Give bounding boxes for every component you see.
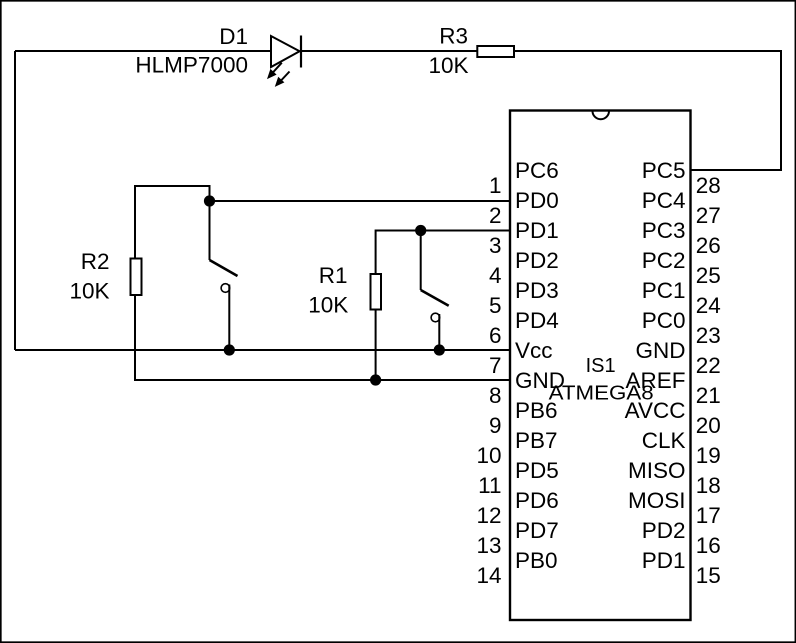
- svg-text:PC5: PC5: [642, 158, 686, 183]
- svg-text:10K: 10K: [69, 279, 109, 304]
- svg-text:20: 20: [696, 413, 721, 438]
- svg-text:21: 21: [696, 383, 721, 408]
- resistor R3: [477, 46, 514, 57]
- resistor R2: [131, 259, 142, 296]
- pin numbers 28-15: [696, 173, 721, 588]
- IC U1 ATMEGA8 body: [510, 111, 691, 621]
- IC U1 left pin labels: [515, 158, 565, 573]
- svg-text:5: 5: [489, 293, 502, 318]
- node PD1 junction: [415, 225, 426, 236]
- svg-text:14: 14: [476, 563, 501, 588]
- node S1 to Vcc junction: [224, 344, 235, 355]
- svg-text:R1: R1: [319, 263, 348, 288]
- svg-text:PD0: PD0: [515, 188, 559, 213]
- label R1: [319, 263, 348, 288]
- svg-text:PD2: PD2: [642, 518, 686, 543]
- svg-text:PD3: PD3: [515, 278, 559, 303]
- svg-text:PD2: PD2: [515, 248, 559, 273]
- wire LED cathode to R3: [302, 50, 477, 52]
- wire R2 top to switch S1 top: [135, 186, 210, 258]
- svg-text:PD6: PD6: [515, 488, 559, 513]
- svg-text:PD1: PD1: [515, 218, 559, 243]
- svg-text:PC4: PC4: [642, 188, 686, 213]
- svg-text:16: 16: [696, 533, 721, 558]
- svg-text:26: 26: [696, 233, 721, 258]
- wire top net from left corner to LED anode: [15, 51, 271, 350]
- wire Vcc net y350 to pin 7 Vcc: [15, 349, 510, 351]
- label D1: [219, 24, 248, 49]
- value HLMP7000: [135, 53, 248, 78]
- svg-text:AVCC: AVCC: [625, 398, 686, 423]
- svg-text:AREF: AREF: [625, 368, 685, 393]
- svg-text:17: 17: [696, 503, 721, 528]
- svg-text:15: 15: [696, 563, 721, 588]
- svg-text:R2: R2: [81, 249, 110, 274]
- svg-text:8: 8: [489, 383, 502, 408]
- svg-text:PC6: PC6: [515, 158, 559, 183]
- IC U1 notch: [593, 111, 610, 119]
- label IS1: [586, 355, 616, 377]
- svg-text:MISO: MISO: [628, 458, 686, 483]
- svg-text:GND: GND: [636, 338, 686, 363]
- svg-text:6: 6: [489, 323, 502, 348]
- value 10K (R1): [308, 293, 348, 318]
- svg-text:19: 19: [696, 443, 721, 468]
- svg-text:3: 3: [489, 233, 502, 258]
- svg-text:13: 13: [476, 533, 501, 558]
- svg-text:PC2: PC2: [642, 248, 686, 273]
- svg-text:PD1: PD1: [642, 548, 686, 573]
- svg-text:9: 9: [489, 413, 502, 438]
- value 10K (R3): [428, 53, 468, 78]
- LED D1: [267, 36, 301, 87]
- svg-text:12: 12: [476, 503, 501, 528]
- svg-text:GND: GND: [515, 368, 565, 393]
- svg-text:28: 28: [696, 173, 721, 198]
- value 10K (R2): [69, 279, 109, 304]
- svg-text:25: 25: [696, 263, 721, 288]
- svg-text:MOSI: MOSI: [628, 488, 686, 513]
- svg-text:22: 22: [696, 353, 721, 378]
- svg-text:PB0: PB0: [515, 548, 558, 573]
- svg-text:7: 7: [489, 353, 502, 378]
- IC U1 right pin labels: [625, 158, 686, 573]
- wire node PD1 to IC pin 3 and R1 top: [376, 231, 510, 274]
- wire GND net y380 from R2 bottom to pin 8 GND: [135, 296, 510, 380]
- svg-text:10: 10: [476, 443, 501, 468]
- svg-text:D1: D1: [219, 24, 248, 49]
- svg-text:11: 11: [478, 473, 501, 498]
- svg-text:10K: 10K: [308, 293, 348, 318]
- node R1 to GND junction: [370, 374, 381, 385]
- svg-text:PC3: PC3: [642, 218, 686, 243]
- wire R1 bottom to GND net: [375, 311, 377, 381]
- svg-text:IS1: IS1: [586, 355, 616, 377]
- switch S1: [210, 201, 238, 350]
- pin numbers 1-14: [476, 173, 501, 588]
- svg-text:Vcc: Vcc: [515, 338, 553, 363]
- switch S2: [421, 231, 449, 351]
- label R3: [439, 23, 468, 48]
- svg-text:PD5: PD5: [515, 458, 559, 483]
- svg-text:18: 18: [696, 473, 721, 498]
- wire node PD0 to IC pin 2: [210, 200, 511, 202]
- wire R3 to top-right corner down to PC5: [515, 51, 782, 170]
- resistor R1: [371, 274, 382, 310]
- svg-text:23: 23: [696, 323, 721, 348]
- svg-text:PD7: PD7: [515, 518, 559, 543]
- svg-text:PD4: PD4: [515, 308, 559, 333]
- svg-text:27: 27: [696, 203, 721, 228]
- svg-text:2: 2: [489, 203, 502, 228]
- svg-text:4: 4: [489, 263, 502, 288]
- svg-text:24: 24: [696, 293, 721, 318]
- svg-text:PB7: PB7: [515, 428, 558, 453]
- label R2: [81, 249, 110, 274]
- svg-text:1: 1: [489, 173, 502, 198]
- svg-text:HLMP7000: HLMP7000: [135, 53, 248, 78]
- svg-text:10K: 10K: [428, 53, 468, 78]
- svg-text:PB6: PB6: [515, 398, 558, 423]
- node PD0 junction: [204, 195, 215, 206]
- value ATMEGA8: [549, 383, 654, 405]
- svg-text:CLK: CLK: [642, 428, 686, 453]
- svg-text:PC0: PC0: [642, 308, 686, 333]
- node S2 to Vcc junction: [434, 344, 445, 355]
- svg-text:PC1: PC1: [642, 278, 686, 303]
- svg-text:R3: R3: [439, 23, 468, 48]
